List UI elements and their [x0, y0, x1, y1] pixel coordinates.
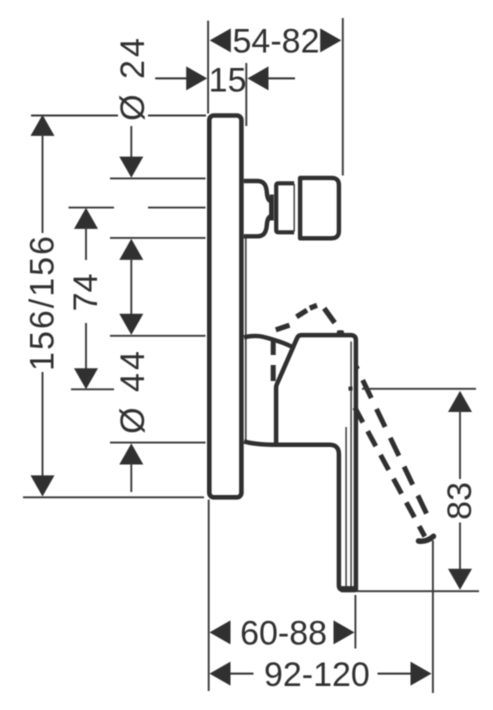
dashed lever up position: tip chevron: [276, 305, 335, 330]
Ø24 ext line top (y=178.4): [110, 177, 206, 179]
svg-text:60-88: 60-88: [240, 614, 327, 652]
extension line 54-82 right (x=342.8): [342, 18, 344, 176]
svg-text:74: 74: [67, 273, 105, 311]
83 top ext line (y=388.8): [362, 388, 476, 390]
plate front face thin line: [245, 238, 247, 442]
Ø44 top arrow: [119, 314, 143, 335]
spout waist bar: [270, 195, 274, 221]
60-88 right ext line (x=355.4): [354, 595, 356, 649]
92-120 right ext line (x=432.9): [432, 541, 434, 694]
Ø44 ext line top (y=335.8): [110, 335, 206, 337]
Ø44 ext line bottom (y=442.6): [110, 442, 206, 444]
dimension 15 left arrow with tail: [155, 77, 188, 79]
Ø24 lower arrow + shared tail down to Ø44 top arrow: [119, 239, 143, 260]
lever inner thin line 2: [345, 427, 347, 588]
dashed lever out position: lower line: [355, 408, 425, 537]
plate top ext line (y=115.5): [31, 115, 206, 117]
83 dim line + arrows: [448, 391, 472, 412]
plate bottom ext line (y=497.3): [23, 496, 204, 498]
pivot mark: [349, 387, 353, 391]
dashed lever out position: upper line: [356, 367, 431, 523]
knockout behind Ø 24 label: [118, 103, 148, 125]
spout collar right thin edge: [293, 184, 295, 232]
bottom left ext line (x=208.7): [208, 500, 210, 691]
Ø24 dim line upper tail + arrow: [130, 126, 132, 158]
handle body + lever outline: [244, 335, 356, 590]
tick y=389.3 left: [71, 388, 114, 390]
dashed lever out position: end cap: [419, 536, 434, 541]
svg-text:54-82: 54-82: [233, 23, 320, 61]
lever top nub: [337, 330, 344, 335]
156/156 dim line + arrows: [31, 115, 55, 136]
wall plate: [209, 116, 241, 498]
extension line left (wall face, x=208) top: [207, 21, 209, 114]
extension line 15 right (x=246.3): [245, 63, 247, 126]
83 bottom ext line (y=591.2): [357, 590, 479, 592]
60-88 dim arrows: [210, 620, 231, 644]
lever bottom cap: [341, 586, 356, 592]
svg-text:92-120: 92-120: [264, 656, 370, 694]
92-120 dim arrows + tails: [210, 662, 231, 686]
spout collar: [276, 183, 294, 232]
Ø44 bottom arrow + tail: [119, 443, 143, 464]
lever inner thin line 1: [350, 342, 352, 588]
svg-text:Ø 24: Ø 24: [114, 35, 152, 121]
dimension 54-82 arrows: [210, 28, 231, 52]
dashed lever up position: back edge: [271, 339, 276, 382]
spout flange: [244, 181, 272, 236]
svg-text:156/156: 156/156: [24, 234, 62, 371]
svg-text:15: 15: [209, 61, 247, 99]
dome arc: [244, 336, 294, 348]
74 dim line + arrows: [74, 208, 98, 229]
svg-text:Ø 44: Ø 44: [114, 348, 152, 434]
centerline y=207.6: [69, 207, 115, 209]
dimension 15 right arrow with tail: [248, 66, 269, 90]
Ø24 ext line bottom (y=237.9): [110, 237, 206, 239]
spout end cap: [300, 178, 339, 238]
svg-text:83: 83: [441, 482, 479, 520]
